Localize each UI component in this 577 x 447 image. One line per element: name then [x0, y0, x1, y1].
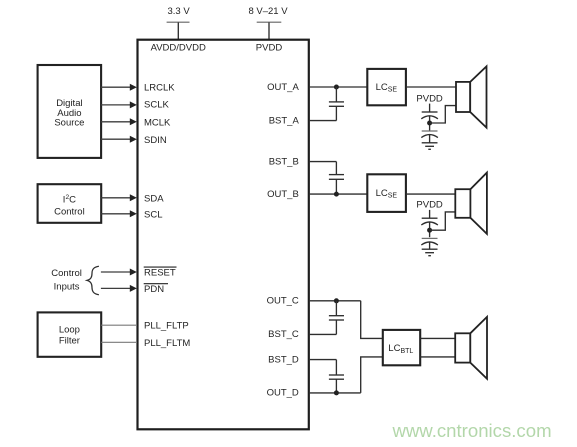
bootstrap capacitor B top stub [335, 162, 337, 175]
svg-text:SCL: SCL [144, 210, 162, 221]
svg-text:PDN: PDN [144, 284, 164, 295]
bootstrap capacitor C top stub [335, 301, 337, 316]
bootstrap capacitor C plates [329, 316, 344, 320]
capacitor PVDD B straight plate [422, 217, 438, 219]
wire OUT_C [309, 300, 361, 302]
wire PLL_FLTM [101, 341, 137, 343]
capacitor to ground B curved plate [421, 242, 438, 245]
svg-text:PLL_FLTM: PLL_FLTM [144, 338, 190, 349]
filter block LC_BTL [383, 330, 420, 365]
wire OUT_D [309, 392, 361, 394]
label Loop Filter [59, 324, 80, 346]
overline RESET [144, 266, 177, 268]
wire OUT_C down to LC_BTL [361, 301, 383, 339]
wire RESET with arrow [101, 269, 137, 276]
svg-text:OUT_A: OUT_A [267, 82, 299, 93]
wire 8 V–21 V to PVDD pin [268, 22, 270, 41]
overline PDN [144, 283, 168, 285]
stub to ground A [429, 135, 431, 143]
junction node OUT_A [334, 85, 339, 90]
svg-text:BST_D: BST_D [268, 354, 299, 365]
capacitor to ground A curved plate [421, 135, 438, 138]
capacitor PVDD A straight plate [422, 111, 438, 113]
bootstrap capacitor B plates [329, 175, 344, 180]
capacitor to ground A straight plate [422, 130, 438, 132]
speaker B horn [470, 173, 487, 234]
svg-text:OUT_B: OUT_B [267, 189, 299, 200]
stub to node A [429, 116, 431, 131]
svg-text:Control: Control [54, 207, 85, 218]
svg-text:AVDD/DVDD: AVDD/DVDD [151, 42, 206, 53]
speaker C driver [455, 333, 470, 362]
junction node OUT_C [334, 298, 339, 303]
wire SDA with arrow [101, 194, 137, 201]
svg-text:www.cntronics.com: www.cntronics.com [391, 420, 551, 441]
label I2C Control [54, 194, 85, 218]
wire BST_C [309, 333, 337, 335]
wire node B to speaker return [430, 212, 456, 230]
wire SCLK with arrow [101, 101, 137, 108]
wire PLL_FLTP [101, 324, 137, 326]
wire node A to speaker return [430, 106, 456, 123]
svg-text:BST_B: BST_B [269, 156, 299, 167]
supply rail bar 3.3 V [167, 21, 190, 23]
bootstrap capacitor C bottom stub [335, 320, 337, 334]
block I2C Control [38, 184, 102, 223]
svg-text:RESET: RESET [144, 268, 176, 279]
bootstrap capacitor D bottom stub [335, 379, 337, 393]
svg-text:8 V–21 V: 8 V–21 V [248, 6, 288, 17]
svg-text:SDA: SDA [144, 194, 164, 205]
bootstrap capacitor A plates [329, 102, 344, 106]
ground symbol B [422, 249, 438, 256]
bootstrap capacitor B bottom stub [335, 180, 337, 195]
wire MCLK with arrow [101, 118, 137, 125]
block Digital Audio Source [38, 65, 102, 158]
supply rail bar 8 V–21 V [257, 21, 282, 23]
wire OUT_A to LC filter [309, 86, 368, 88]
svg-text:SCLK: SCLK [144, 100, 169, 111]
bootstrap capacitor D plates [329, 375, 344, 379]
speaker B driver [455, 189, 470, 218]
junction node speaker return B [427, 228, 432, 233]
speaker C horn [470, 317, 487, 379]
svg-text:3.3 V: 3.3 V [168, 6, 191, 17]
junction node OUT_B [334, 192, 339, 197]
svg-text:Control: Control [51, 268, 82, 279]
svg-text:Inputs: Inputs [54, 282, 80, 293]
svg-text:PLL_FLTP: PLL_FLTP [144, 321, 189, 332]
wire SDIN with arrow [101, 136, 137, 143]
svg-text:OUT_D: OUT_D [267, 388, 299, 399]
filter block LC_SE (channel B) [367, 174, 406, 212]
svg-text:PVDD: PVDD [256, 42, 283, 53]
svg-text:I2C: I2C [63, 194, 76, 206]
svg-text:OUT_C: OUT_C [267, 296, 299, 307]
wire OUT_B to LC filter [309, 193, 368, 195]
wire LC_SE A to speaker [406, 86, 456, 88]
wire SCL with arrow [101, 210, 137, 217]
svg-text:SDIN: SDIN [144, 135, 167, 146]
PVDD stub B [429, 210, 431, 218]
wire LRCLK with arrow [101, 84, 137, 91]
svg-text:BST_A: BST_A [269, 115, 300, 126]
svg-text:Loop: Loop [59, 324, 80, 335]
filter block LC_SE (channel A) [367, 69, 406, 105]
svg-text:MCLK: MCLK [144, 118, 171, 129]
block Loop Filter [38, 312, 102, 356]
wire OUT_D up to LC_BTL [361, 357, 383, 393]
svg-text:BST_C: BST_C [268, 329, 299, 340]
bootstrap capacitor D top stub [335, 360, 337, 375]
svg-text:Source: Source [54, 118, 84, 129]
label Control Inputs [51, 268, 82, 293]
wire PDN with arrow [101, 285, 137, 292]
svg-text:PVDD: PVDD [416, 200, 443, 211]
capacitor to ground B straight plate [422, 237, 438, 239]
ground symbol A [422, 143, 438, 150]
speaker A driver [456, 82, 470, 112]
wire LC_BTL top output to speaker [420, 337, 455, 339]
speaker A horn [470, 66, 486, 127]
wire 3.3 V to AVDD/DVDD pin [177, 22, 179, 41]
junction node speaker return A [427, 121, 432, 126]
capacitor PVDD B curved plate [421, 222, 438, 225]
wire BST_D [309, 359, 337, 361]
stub to ground B [429, 242, 431, 249]
wire LC_SE B to speaker [406, 193, 455, 195]
svg-text:Filter: Filter [59, 336, 80, 347]
junction node OUT_D [334, 390, 339, 395]
PVDD stub A [429, 104, 431, 112]
bootstrap capacitor A top stub [335, 87, 337, 102]
wire LC_BTL bottom output to speaker [420, 356, 455, 358]
brace for control inputs [87, 266, 99, 294]
svg-text:PVDD: PVDD [416, 93, 443, 104]
IC block U1 (class-D amplifier) [138, 40, 309, 430]
bootstrap capacitor A bottom stub [335, 107, 337, 121]
wire BST_A [309, 120, 337, 122]
label Digital Audio Source [54, 98, 84, 129]
capacitor PVDD A curved plate [421, 116, 438, 119]
wire BST_B [309, 161, 337, 163]
svg-text:LRCLK: LRCLK [144, 83, 175, 94]
stub to node B [429, 222, 431, 237]
